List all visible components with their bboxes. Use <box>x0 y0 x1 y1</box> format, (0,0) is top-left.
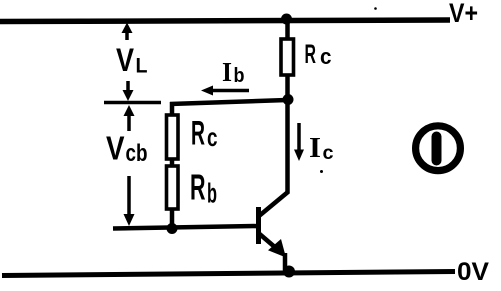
svg-text:I: I <box>222 57 232 87</box>
node junction collector/base-network <box>283 94 294 105</box>
svg-text:cb: cb <box>126 140 148 167</box>
figure number circle 1 <box>416 126 461 171</box>
wire bottom supply rail 0V <box>2 272 455 276</box>
dimension VL bottom arrow <box>126 81 130 93</box>
wire top supply rail V+ <box>0 20 450 22</box>
label RC (collector) <box>305 39 332 69</box>
transistor Q1 base bar <box>256 207 261 244</box>
node junction base wire <box>167 223 178 234</box>
wire base-network top horizontal <box>170 100 287 104</box>
label IB <box>222 57 245 87</box>
dimension VCB bottom arrow <box>127 176 131 218</box>
label RC (base network) <box>191 115 218 153</box>
resistor RC (collector) <box>281 39 294 75</box>
dimension VL top arrow <box>122 23 133 34</box>
dimension tick line <box>104 101 161 105</box>
wire base horizontal <box>113 226 258 229</box>
wire emitter to 0V <box>283 253 288 272</box>
resistor RC (base network) <box>167 115 179 159</box>
scan speck <box>374 7 377 10</box>
svg-text:V: V <box>106 130 125 167</box>
svg-text:L: L <box>136 55 148 78</box>
resistor RB <box>167 166 179 209</box>
label VCB <box>106 130 148 168</box>
svg-text:c: c <box>323 143 334 164</box>
svg-text:c: c <box>207 122 218 152</box>
wire base-network left vertical <box>170 102 175 229</box>
transistor Q1 collector stroke <box>259 192 289 217</box>
label VL <box>116 42 148 78</box>
svg-text:b: b <box>207 178 217 209</box>
dimension VCB top arrow <box>124 105 135 116</box>
node junction at top rail <box>281 14 292 25</box>
label RB <box>190 167 217 209</box>
svg-text:V: V <box>116 42 135 78</box>
transistor Q1 emitter arrowhead <box>268 239 286 258</box>
svg-text:I: I <box>309 133 321 164</box>
transistor Q1 emitter stroke <box>259 234 280 252</box>
svg-text:c: c <box>320 44 332 69</box>
svg-text:0V: 0V <box>457 258 489 286</box>
svg-text:R: R <box>305 39 317 69</box>
node junction emitter/0V <box>283 266 295 278</box>
svg-text:R: R <box>191 115 205 153</box>
svg-text:R: R <box>190 167 206 208</box>
current arrow IB <box>209 89 249 93</box>
svg-text:b: b <box>234 65 245 87</box>
scan speck <box>320 170 323 173</box>
wire collector branch vertical <box>285 19 290 193</box>
svg-text:V+: V+ <box>449 0 478 28</box>
current arrow IC <box>297 123 301 153</box>
label IC <box>309 133 334 164</box>
